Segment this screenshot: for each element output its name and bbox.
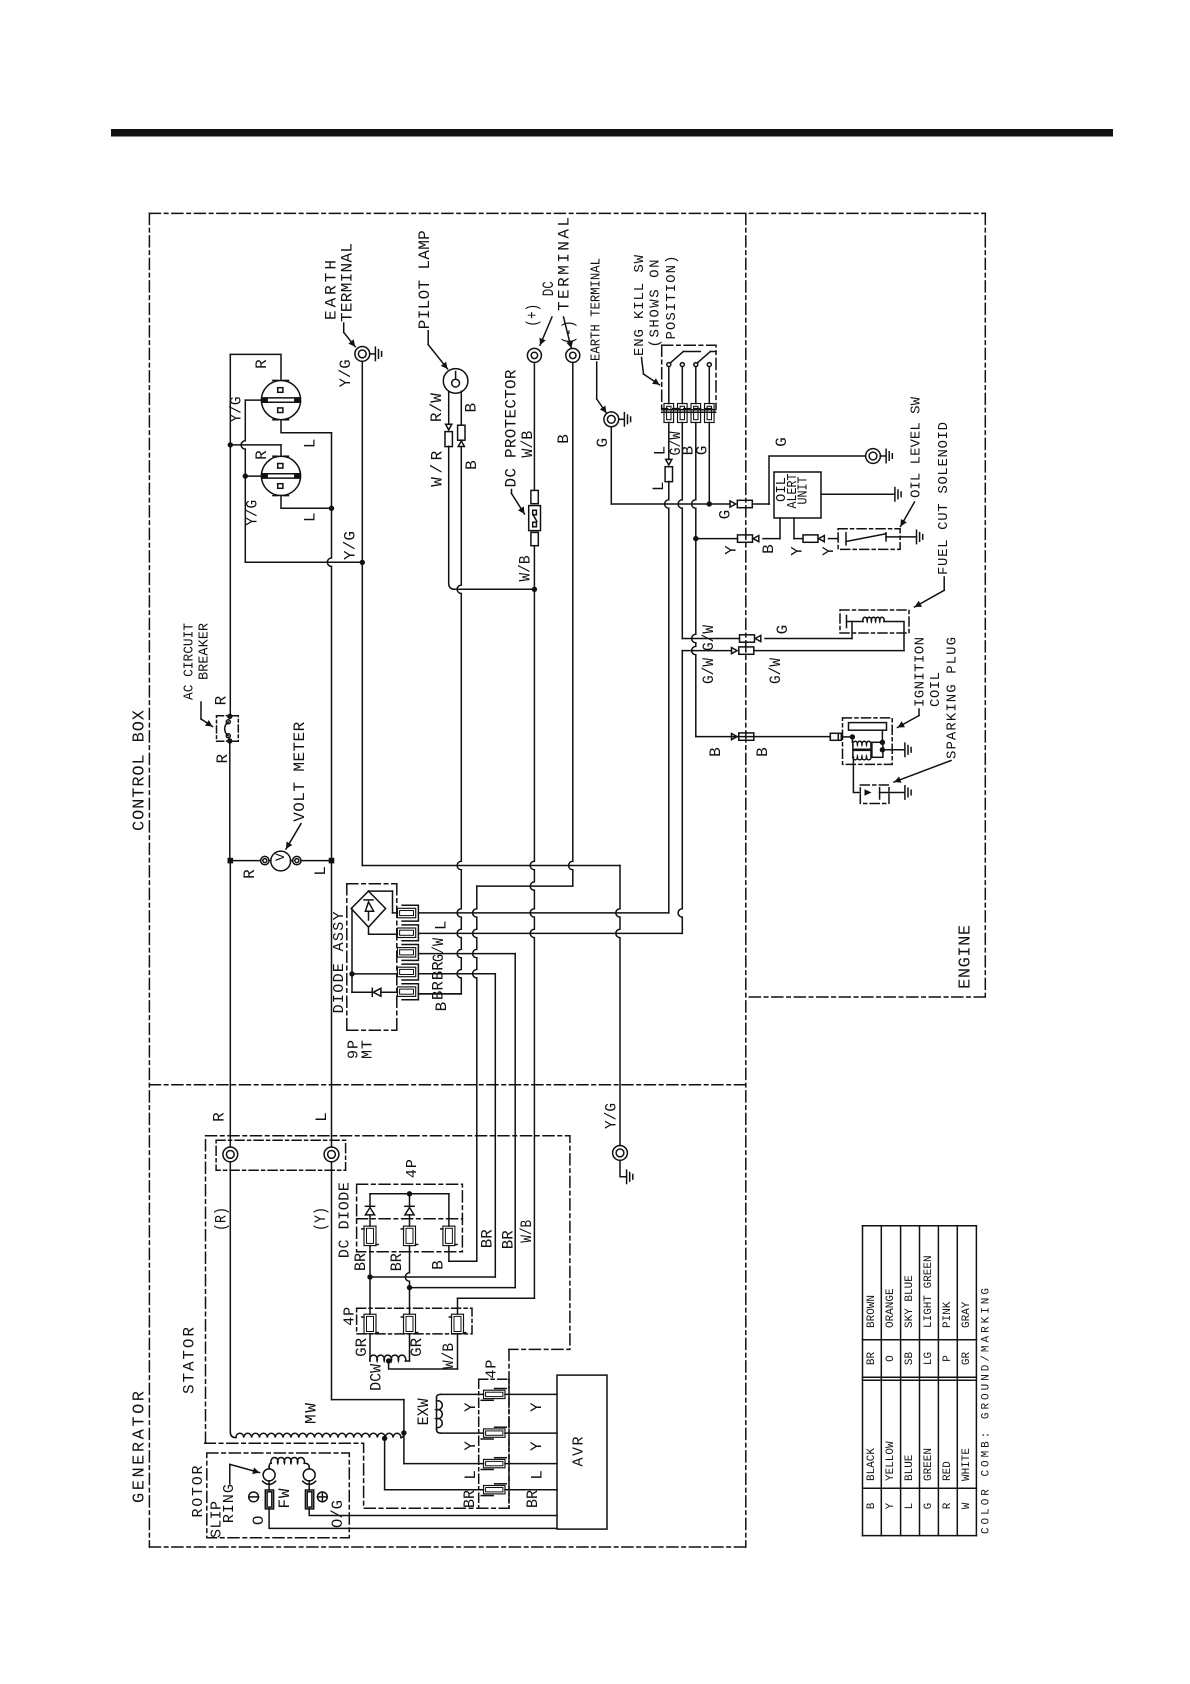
high tension lead — [853, 757, 860, 792]
ignition coil primary terminal — [830, 733, 841, 740]
svg-text:R: R — [211, 1112, 229, 1122]
node voltmeter R — [228, 858, 234, 864]
svg-text:L: L — [904, 1503, 916, 1510]
wire W/B long vertical — [530, 589, 534, 1298]
svg-text:4P: 4P — [342, 1307, 359, 1326]
svg-text:R: R — [942, 1502, 954, 1509]
connector W/R — [446, 424, 452, 430]
svg-text:G: G — [773, 437, 791, 447]
svg-text:RING: RING — [221, 1484, 238, 1523]
svg-text:IGNITION: IGNITION — [912, 637, 928, 707]
page top rule — [111, 129, 1113, 137]
svg-text:B: B — [430, 1260, 448, 1270]
svg-text:B: B — [707, 747, 725, 757]
node Y/G receptacle2 — [243, 473, 248, 478]
leader ignition coil — [918, 709, 920, 716]
svg-text:R: R — [253, 359, 271, 369]
svg-text:Y/G: Y/G — [603, 1103, 621, 1129]
kill switch contacts — [667, 363, 671, 367]
svg-text:GR: GR — [353, 1338, 371, 1357]
svg-text:RED: RED — [942, 1461, 954, 1481]
ignition coil secondary — [872, 742, 883, 757]
ground oil level sw — [900, 536, 915, 538]
diode to pin5 — [352, 991, 372, 993]
9P connector pins — [402, 905, 418, 921]
solenoid coil — [846, 616, 848, 628]
DC protector — [531, 490, 538, 503]
svg-text:BLACK: BLACK — [866, 1448, 878, 1481]
leader pilot lamp — [427, 331, 429, 345]
svg-text:GR: GR — [408, 1338, 426, 1357]
wire R main vertical — [229, 354, 231, 716]
generator/control divider — [149, 1084, 745, 1086]
svg-text:YELLOW: YELLOW — [885, 1441, 897, 1481]
DC terminal (+) bolt — [527, 348, 541, 362]
wire B jog left — [477, 885, 573, 887]
leader spark plug — [894, 761, 951, 783]
wire B to ignition coil — [696, 736, 831, 738]
wire W/R to W/B junction — [454, 588, 534, 590]
wire bridge AC to pin2 — [369, 927, 398, 934]
spark plug electrode — [865, 789, 872, 795]
lower 4P box — [357, 1308, 472, 1334]
kill switch levers — [670, 352, 683, 363]
svg-text:Y/G: Y/G — [228, 397, 246, 423]
wire D2 to bus2 — [405, 1246, 409, 1315]
terminal bolt L — [324, 1147, 339, 1162]
wire G up to oil level sw — [769, 456, 866, 504]
svg-text:B: B — [866, 1502, 878, 1509]
svg-text:Y: Y — [462, 1441, 480, 1451]
wire R receptacle1 top — [230, 354, 281, 380]
svg-text:(+): (+) — [524, 304, 542, 327]
EXW coil — [436, 1398, 438, 1430]
svg-text:L: L — [462, 1470, 480, 1480]
DCW coil — [369, 1334, 371, 1361]
svg-text:AVR: AVR — [571, 1437, 588, 1467]
wire G oil alert top — [768, 503, 769, 505]
wire W/R pilot left — [448, 391, 450, 424]
DC diode box — [357, 1184, 463, 1252]
svg-text:BR: BR — [524, 1490, 542, 1508]
svg-text:W/R: W/R — [429, 450, 447, 486]
svg-text:EARTH TERMINAL: EARTH TERMINAL — [589, 258, 605, 361]
wire L voltmeter down to generator — [331, 861, 333, 1147]
slip rings — [265, 1490, 273, 1509]
svg-text:Y: Y — [528, 1402, 546, 1412]
svg-text:W/B: W/B — [440, 1343, 458, 1369]
svg-text:ENG KILL SW: ENG KILL SW — [632, 254, 648, 356]
svg-text:BR: BR — [499, 1230, 517, 1249]
svg-text:L: L — [301, 512, 319, 522]
wire W/B link — [458, 1297, 535, 1299]
svg-text:P: P — [942, 1355, 954, 1362]
svg-text:BR: BR — [430, 961, 448, 980]
wire pole2 G/W — [678, 423, 682, 639]
svg-text:4P: 4P — [484, 1360, 501, 1379]
terminal sub-box — [216, 1140, 346, 1170]
leader breaker — [200, 702, 202, 719]
svg-text:FW: FW — [276, 1488, 294, 1508]
ground at generator earth — [620, 1160, 625, 1176]
lower 4P pins — [364, 1314, 376, 1334]
wire L from receptacle1 bottom — [281, 420, 332, 433]
ground at earth terminal — [370, 353, 375, 355]
svg-text:VOLT METER: VOLT METER — [291, 721, 309, 821]
svg-text:G/W: G/W — [700, 658, 718, 684]
ignition coil ground — [883, 749, 904, 751]
engine border vertical — [745, 213, 747, 1547]
svg-text:Y/G: Y/G — [342, 531, 360, 560]
DC diode pins (connector) — [364, 1226, 376, 1246]
9P pin exits — [418, 912, 668, 914]
svg-text:Y: Y — [885, 1502, 897, 1509]
svg-text:Y: Y — [528, 1441, 546, 1451]
volt meter — [271, 851, 291, 871]
wire B down to DC diode — [473, 886, 477, 1261]
svg-text:BR: BR — [430, 981, 448, 1000]
svg-text:MT: MT — [360, 1040, 377, 1059]
leader volt meter — [286, 824, 301, 849]
svg-text:MW: MW — [303, 1403, 321, 1424]
svg-text:B: B — [555, 434, 573, 444]
svg-text:G: G — [717, 510, 735, 520]
wire L vertical — [327, 433, 331, 861]
wire D1 to bus1 — [369, 1246, 371, 1315]
svg-text:G: G — [923, 1503, 935, 1510]
svg-text:O: O — [250, 1515, 268, 1525]
svg-text:O: O — [885, 1355, 897, 1362]
DC diode D2 — [409, 1194, 411, 1207]
leader slip ring — [229, 1464, 231, 1484]
wire Y/G earth vertical — [361, 361, 363, 865]
diode assy box — [347, 883, 397, 885]
svg-text:Y: Y — [723, 545, 741, 555]
AC circuit breaker — [217, 716, 239, 742]
wire R breaker to voltmeter — [229, 741, 231, 861]
svg-text:UNIT: UNIT — [796, 477, 812, 505]
DC diode D1 — [369, 1194, 371, 1207]
leader fuel cut solenoid — [943, 577, 945, 590]
stator dash-dot boundary — [206, 1136, 570, 1350]
wire bridge+ to pin1 — [369, 890, 393, 892]
svg-text:COIL: COIL — [928, 672, 944, 707]
svg-text:GR: GR — [961, 1352, 973, 1366]
svg-text:BROWN: BROWN — [866, 1295, 878, 1328]
wire bridge- down — [351, 909, 353, 993]
svg-text:BR: BR — [866, 1352, 878, 1366]
leader eng kill sw — [642, 358, 644, 375]
svg-text:BR: BR — [388, 1253, 406, 1271]
svg-text:Y: Y — [820, 546, 838, 556]
brushes — [263, 1469, 275, 1481]
node bridge- pin4 — [349, 971, 354, 976]
ignition coil windings — [851, 737, 853, 742]
node DCW tap — [386, 1358, 391, 1363]
svg-text:ROTOR: ROTOR — [190, 1466, 207, 1518]
spark plug box — [860, 785, 889, 804]
svg-text:G: G — [774, 625, 792, 635]
leader engine earth — [596, 362, 598, 399]
svg-text:L: L — [433, 920, 451, 930]
svg-text:G: G — [693, 446, 711, 456]
svg-text:W/B: W/B — [516, 556, 534, 582]
wire B from (-) — [569, 362, 573, 886]
svg-text:Y/G: Y/G — [243, 500, 261, 526]
wire B pilot right — [460, 391, 462, 425]
node voltmeter L — [329, 858, 335, 864]
wire W/B from (+) — [533, 362, 535, 490]
svg-text:L: L — [528, 1470, 546, 1480]
BR bus1 — [370, 1276, 495, 1278]
oil alert ground right — [821, 493, 894, 495]
oil level switch box — [838, 529, 900, 550]
connector G wire — [730, 501, 736, 507]
node Y/G earth join — [360, 560, 365, 565]
svg-text:LG: LG — [923, 1352, 935, 1365]
svg-text:SKY BLUE: SKY BLUE — [904, 1275, 916, 1328]
svg-text:TERMINAL: TERMINAL — [339, 243, 357, 322]
wire G/W pole2 lower segment — [678, 651, 682, 934]
svg-text:R/W: R/W — [428, 393, 446, 422]
rotor wires to AVR — [309, 1509, 557, 1516]
svg-text:SB: SB — [904, 1352, 916, 1366]
svg-text:Y: Y — [789, 546, 807, 556]
control box / outer dash-dot border — [149, 212, 985, 214]
wire Y-Y oil alert right-bottom — [793, 518, 795, 539]
earth terminal bolt (control box) — [355, 347, 370, 362]
oil level sw ground bolt — [866, 449, 881, 464]
svg-text:BR: BR — [479, 1229, 497, 1248]
bridge rectifier — [351, 891, 385, 927]
DCW tap to W/B pin — [389, 1361, 458, 1369]
svg-text:B: B — [433, 1002, 451, 1012]
svg-text:PINK: PINK — [942, 1301, 954, 1328]
svg-text:L: L — [650, 481, 668, 491]
MW coil — [236, 1433, 401, 1437]
svg-text:PILOT LAMP: PILOT LAMP — [416, 230, 434, 329]
kill sw wires below connectors — [668, 423, 670, 460]
wire L link to MW/AVR — [332, 1399, 404, 1401]
svg-text:B: B — [754, 747, 772, 757]
svg-text:DC DIODE: DC DIODE — [337, 1182, 354, 1258]
svg-text:DC PROTECTOR: DC PROTECTOR — [503, 369, 521, 487]
fuel cut solenoid box — [840, 610, 909, 633]
svg-text:V: V — [273, 853, 288, 861]
leader DC protector — [511, 490, 513, 494]
svg-text:OIL LEVEL SW: OIL LEVEL SW — [909, 396, 925, 498]
wire MW tap to AVR pin4 — [384, 1438, 386, 1489]
rotor box — [207, 1453, 349, 1538]
wire G from earth bolt — [610, 427, 612, 504]
svg-text:POSITION): POSITION) — [664, 256, 680, 340]
wire Y/G down to generator — [616, 866, 620, 1146]
svg-text:L: L — [301, 439, 319, 449]
connector B pilot — [458, 425, 465, 440]
oil level switch contacts — [845, 533, 847, 545]
svg-text:BREAKER: BREAKER — [197, 622, 213, 680]
wire W/R down — [448, 446, 450, 584]
color code table — [862, 1226, 864, 1536]
node R-receptacle2 — [228, 442, 233, 447]
svg-text:Y/G: Y/G — [337, 359, 355, 387]
svg-text:(SHOWS ON: (SHOWS ON — [648, 260, 664, 348]
svg-text:B: B — [462, 403, 480, 413]
eng kill switch box — [662, 345, 716, 408]
AC receptacle 1 — [261, 381, 300, 420]
node L receptacle2 join — [329, 506, 334, 511]
svg-text:BR: BR — [461, 1490, 479, 1508]
AVR 4P connector dash lines — [478, 1379, 480, 1508]
svg-text:FUEL CUT SOLENOID: FUEL CUT SOLENOID — [936, 422, 952, 575]
wire pole3 B — [692, 423, 696, 737]
node bus — [407, 1191, 412, 1196]
wire R to receptacle2 — [230, 444, 281, 446]
svg-text:ENGINE: ENGINE — [956, 925, 975, 989]
wire Y/G horizontal run — [362, 865, 620, 867]
svg-text:G/W: G/W — [767, 658, 785, 684]
wire G/W lower to solenoid — [682, 650, 731, 652]
svg-text:G/W: G/W — [430, 938, 448, 962]
leader to (+) — [540, 317, 552, 345]
wire receptacle2 bottom — [281, 496, 332, 509]
wire G/W upper to solenoid — [682, 638, 739, 640]
svg-text:DCW: DCW — [368, 1364, 386, 1391]
svg-text:GREEN: GREEN — [923, 1448, 935, 1481]
wire pole4 G — [708, 423, 710, 505]
kill switch connector row — [664, 404, 674, 423]
wire L below bolt — [331, 1162, 333, 1400]
svg-text:R: R — [241, 869, 259, 879]
wire Y/B oil alert left-bottom — [696, 538, 738, 540]
svg-text:W: W — [961, 1502, 973, 1509]
svg-text:R: R — [253, 450, 271, 460]
leader to (-) — [564, 317, 572, 348]
node bus2 — [407, 1285, 412, 1290]
svg-text:(R): (R) — [213, 1207, 231, 1231]
svg-text:BLUE: BLUE — [904, 1454, 916, 1481]
svg-text:GRAY: GRAY — [961, 1301, 973, 1328]
svg-text:O/G: O/G — [329, 1500, 347, 1528]
earth terminal bolt (engine) — [604, 412, 619, 427]
svg-text:4P: 4P — [404, 1159, 421, 1178]
node MW right end — [401, 1430, 406, 1435]
pilot lamp — [443, 369, 468, 394]
node G kill-switch — [707, 501, 712, 506]
AVR 4P pins — [484, 1390, 506, 1398]
DC diode bus — [370, 1193, 449, 1195]
svg-text:GENERATOR: GENERATOR — [131, 1391, 150, 1503]
terminal bolt R — [223, 1147, 238, 1162]
wire B path through pin3 — [448, 1194, 450, 1226]
AC receptacle 2 — [261, 456, 300, 495]
svg-text:BR: BR — [352, 1253, 370, 1271]
svg-text:EXW: EXW — [415, 1398, 433, 1425]
wire L to AVR pin3 — [404, 1463, 484, 1465]
node MW tap — [382, 1436, 387, 1441]
svg-text:G/W: G/W — [700, 625, 718, 651]
svg-text:R: R — [212, 695, 230, 705]
wire Y/G down to earth wire — [244, 476, 246, 562]
node B oil alert — [693, 536, 698, 541]
DC terminal (-) bolt — [566, 348, 580, 362]
wire R voltmeter down to generator — [229, 861, 231, 1147]
svg-text:LIGHT GREEN: LIGHT GREEN — [923, 1255, 935, 1328]
leader oil level sw — [901, 502, 915, 527]
svg-text:W/B: W/B — [518, 1220, 536, 1243]
polarity marks — [249, 1492, 259, 1502]
earth bolt (generator) — [613, 1146, 628, 1161]
svg-text:B: B — [463, 460, 481, 470]
svg-text:CONTROL BOX: CONTROL BOX — [131, 710, 150, 831]
svg-text:B: B — [760, 544, 778, 554]
node W/B junction — [532, 587, 537, 592]
svg-text:ORANGE: ORANGE — [885, 1288, 897, 1328]
FW coil — [271, 1458, 305, 1464]
svg-text:G: G — [594, 438, 612, 448]
spark plug ground — [889, 792, 904, 794]
ignition coil box — [843, 718, 893, 765]
svg-text:(Y): (Y) — [312, 1207, 330, 1231]
svg-text:DIODE ASSY: DIODE ASSY — [331, 911, 348, 1013]
svg-text:W/B: W/B — [519, 431, 537, 458]
wire G horizontal — [611, 503, 709, 505]
wire Y/G receptacle1 left — [245, 399, 261, 401]
BR bus2 — [410, 1287, 516, 1289]
svg-text:AC CIRCUIT: AC CIRCUIT — [182, 623, 198, 700]
ignition coil core — [849, 723, 887, 731]
leader earth terminal — [343, 323, 345, 332]
AVR box — [557, 1375, 607, 1529]
oil alert unit box — [774, 472, 821, 518]
wire B pilot down to 9P — [457, 447, 461, 994]
node bus1 — [367, 1274, 372, 1279]
wire Y/G receptacle chain — [241, 400, 245, 476]
wire R to MW coil — [229, 1162, 231, 1432]
svg-text:SPARKING PLUG: SPARKING PLUG — [944, 637, 960, 759]
wire W/B below protector — [533, 546, 535, 590]
svg-text:L: L — [313, 1112, 331, 1122]
svg-text:Y: Y — [462, 1402, 480, 1412]
svg-text:WHITE: WHITE — [961, 1448, 973, 1481]
ground engine earth — [619, 418, 624, 420]
svg-text:L: L — [312, 866, 330, 876]
